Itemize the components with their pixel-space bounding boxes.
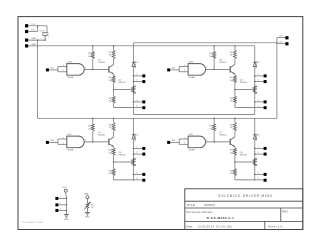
wire output column 4	[254, 118, 256, 180]
wire OUT4 pin 3	[255, 172, 264, 174]
wire Q8 gate	[235, 161, 252, 163]
resistor R7 10K	[230, 74, 237, 90]
wire IN2 to U gate	[170, 69, 179, 71]
svg-text:3: 3	[258, 100, 259, 102]
svg-text:U1D: U1D	[189, 134, 194, 136]
resistor R2 1K	[109, 45, 116, 59]
AND gate U1A	[67, 61, 86, 79]
resistor R4 1K	[109, 90, 116, 108]
svg-text:1: 1	[60, 196, 61, 198]
svg-text:2: 2	[184, 70, 185, 72]
junction bus 12V	[37, 25, 39, 32]
wire OUT2 pin 1	[255, 74, 264, 76]
wire OUT1 pin 2	[134, 80, 143, 82]
svg-text:B-CS-M080-0-1: B-CS-M080-0-1	[207, 216, 235, 220]
svg-text:7408A: 7408A	[67, 76, 74, 79]
svg-text:10K: 10K	[230, 80, 234, 82]
wire U1B output to Q3 base	[206, 69, 231, 71]
wire Q4 source return	[235, 106, 255, 108]
connector OUT1 pin 3	[142, 100, 145, 103]
svg-text:3: 3	[206, 67, 207, 69]
wire Q6 gate	[114, 161, 131, 163]
wire +12V rail jog	[133, 43, 135, 46]
wire output column 2	[254, 46, 256, 115]
svg-text:3: 3	[60, 208, 61, 210]
svg-text:VCC: VCC	[62, 187, 67, 189]
svg-text:3: 3	[258, 172, 259, 174]
transistor Q6 IRFZ34	[119, 152, 136, 166]
wire aux rail upper right	[134, 42, 277, 44]
svg-text:B-CS-M080-0-1.DSN: B-CS-M080-0-1.DSN	[23, 222, 44, 224]
svg-text:SM4004: SM4004	[256, 133, 258, 141]
resistor R12 1K	[109, 162, 116, 180]
resistor R8 1K	[230, 90, 237, 108]
wire OUT4 pin 2	[255, 152, 264, 154]
connector OUT3 pin 2	[142, 153, 145, 156]
wire J1-2	[28, 31, 37, 33]
wire J5 bus	[66, 195, 68, 214]
wire OUT3 pin 2	[134, 152, 143, 154]
diode D2 SM4004	[253, 60, 260, 68]
document number label	[186, 210, 213, 214]
connector J5 pin 1	[55, 197, 58, 200]
wire OUT2 pin 4	[255, 106, 264, 108]
svg-text:12V: 12V	[31, 24, 35, 26]
svg-text:2N4401: 2N4401	[98, 62, 106, 64]
document number value	[207, 216, 235, 220]
svg-text:0.1uF: 0.1uF	[39, 31, 45, 33]
diode D1 SM4004	[132, 60, 139, 68]
svg-text:1: 1	[63, 137, 64, 139]
wire +12V drop right	[276, 38, 278, 119]
resistor R9 10K	[88, 118, 94, 142]
svg-text:2: 2	[258, 152, 259, 154]
wire Q8 source return	[235, 179, 255, 181]
svg-text:1: 1	[136, 74, 137, 76]
wire OUT3 pin 1	[134, 146, 143, 148]
diode D3 SM4004	[132, 133, 139, 141]
svg-text:U1C: U1C	[67, 134, 72, 136]
svg-text:SOLENOID DRIVER M080: SOLENOID DRIVER M080	[218, 194, 273, 198]
svg-text:SM4004: SM4004	[135, 133, 137, 141]
ground GND2	[85, 212, 90, 218]
connector input pin IN1	[46, 68, 49, 71]
wire U1C output to Q5 base	[84, 141, 109, 143]
svg-text:4: 4	[136, 106, 137, 108]
svg-text:2: 2	[63, 70, 64, 72]
net label GND pin3	[31, 38, 36, 40]
connector OUT1 pin 2	[142, 80, 145, 83]
resistor R14 1K	[230, 118, 237, 132]
power symbol VCC	[62, 187, 67, 195]
connector OUT4 pin 1	[264, 147, 267, 150]
transistor Q7 2N4401	[219, 131, 235, 147]
connector J6 pin 1	[285, 36, 288, 39]
svg-text:SM4004: SM4004	[135, 60, 137, 68]
svg-text:7408A: 7408A	[188, 148, 195, 151]
svg-text:Sheet 1/1: Sheet 1/1	[268, 224, 283, 228]
svg-text:2: 2	[258, 80, 259, 82]
svg-text:10K: 10K	[209, 129, 213, 131]
wire +12V rail lower	[38, 117, 277, 119]
connector OUT2 pin 2	[264, 80, 267, 83]
svg-text:2: 2	[136, 80, 137, 82]
wire J6-2	[277, 42, 285, 44]
svg-text:10K: 10K	[108, 80, 112, 82]
wire GND rail mid	[134, 114, 255, 116]
svg-text:10K: 10K	[108, 153, 112, 155]
svg-text:VBB: VBB	[84, 194, 89, 196]
wire output column 3	[133, 118, 135, 180]
connector J1 pin 2	[25, 30, 28, 33]
net label 12V pin1	[31, 24, 35, 26]
svg-text:10K: 10K	[209, 56, 213, 58]
svg-text:IRFZ34: IRFZ34	[240, 155, 248, 157]
svg-text:10K: 10K	[230, 153, 234, 155]
transistor Q2 IRFZ34	[119, 79, 136, 93]
connector OUT1 pin 4	[142, 106, 145, 109]
wire IN1 to U gate	[49, 69, 58, 71]
connector J5 pin 3	[55, 209, 58, 212]
date row	[186, 224, 232, 228]
wire OUT4 pin 1	[255, 146, 264, 148]
svg-text:GND: GND	[31, 38, 36, 40]
AND gate U1B	[188, 62, 207, 79]
wire OUT2 pin 2	[255, 80, 264, 82]
net label IN2	[172, 68, 176, 70]
wire J1-4	[28, 45, 37, 47]
svg-text:IRFZ34: IRFZ34	[240, 82, 248, 84]
svg-text:3: 3	[206, 140, 207, 142]
connector J6 pin 2	[285, 42, 288, 45]
wire U1D output to Q7 base	[206, 141, 231, 143]
net label J6-1	[279, 36, 283, 38]
wire gate input split U1A	[58, 65, 67, 72]
connector OUT4 pin 2	[264, 153, 267, 156]
wire OUT1 pin 3	[134, 100, 143, 102]
svg-text:Document Number:: Document Number:	[186, 210, 213, 214]
svg-text:IRFZ34: IRFZ34	[119, 155, 127, 157]
wire OUT1 pin 4	[134, 106, 143, 108]
svg-text:TITLE:: TITLE:	[186, 203, 196, 207]
svg-text:2/25/2013 02:43:18p: 2/25/2013 02:43:18p	[198, 224, 232, 228]
svg-text:1: 1	[258, 146, 259, 148]
svg-text:2: 2	[184, 143, 185, 145]
connector input pin IN3	[46, 141, 49, 144]
wire OUT1 pin 1	[134, 74, 143, 76]
svg-text:7408A: 7408A	[67, 148, 74, 151]
wire IN4 to U gate	[170, 141, 179, 143]
transistor Q8 IRFZ34	[240, 152, 257, 166]
sheet border	[18, 17, 303, 230]
wire J5-3	[58, 208, 66, 210]
net label IN3	[50, 140, 54, 142]
wire OUT3 pin 3	[134, 172, 143, 174]
svg-text:3: 3	[136, 172, 137, 174]
svg-text:GND: GND	[64, 219, 69, 221]
junction bus GND	[37, 39, 46, 46]
transistor Q5 2N4401	[98, 131, 114, 147]
resistor R6 1K	[230, 45, 237, 59]
resistor R15 10K	[230, 147, 237, 163]
resistor R11 10K	[108, 147, 115, 163]
connector OUT3 pin 1	[142, 147, 145, 150]
connector OUT2 pin 4	[264, 106, 267, 109]
transistor Q1 2N4401	[98, 59, 114, 75]
svg-text:2N4401: 2N4401	[98, 135, 106, 137]
resistor R3 10K	[108, 74, 115, 90]
svg-text:1: 1	[136, 146, 137, 148]
title text SOLENOID DRIVER M080	[218, 194, 273, 198]
connector input pin IN4	[167, 141, 170, 144]
svg-text:10K: 10K	[88, 129, 92, 131]
net label IN1	[50, 68, 54, 70]
resistor R5 10K	[209, 45, 215, 69]
svg-text:GND: GND	[31, 44, 36, 46]
svg-text:3: 3	[85, 140, 86, 142]
wire Q4 gate	[235, 89, 252, 91]
resistor R16 1K	[230, 162, 237, 180]
svg-text:10K: 10K	[88, 56, 92, 58]
wire +12V rail top	[38, 45, 255, 47]
wire J1-1	[28, 25, 47, 27]
wire output column 1	[133, 46, 135, 115]
svg-text:SM4004: SM4004	[256, 60, 258, 68]
wire Q6 source return	[114, 179, 134, 181]
wire J5-2	[58, 203, 66, 205]
wire gate input split U1B	[179, 65, 188, 72]
title block cell dividers	[265, 208, 281, 230]
wire Q2 source return	[114, 106, 134, 108]
svg-text:2N4401: 2N4401	[219, 135, 227, 137]
resistor R13 10K	[209, 118, 215, 142]
wire OUT2 pin 3	[255, 100, 264, 102]
transistor Q4 IRFZ34	[240, 79, 257, 93]
wire IN3 to U gate	[49, 141, 58, 143]
wire U1A output to Q1 base	[84, 69, 109, 71]
svg-text:2: 2	[60, 203, 61, 205]
svg-text:1: 1	[63, 65, 64, 67]
wire OUT3 pin 4	[134, 178, 143, 180]
title block frame	[185, 189, 303, 230]
resistor RV1 trimmer	[84, 202, 95, 213]
connector input pin IN2	[167, 68, 170, 71]
wire J1-3	[28, 39, 45, 41]
svg-text:7408A: 7408A	[188, 76, 195, 79]
capacitor C1 0.1uF	[39, 26, 50, 40]
connector OUT1 pin 1	[142, 74, 145, 77]
wire Q2 gate	[114, 89, 131, 91]
svg-text:2: 2	[136, 152, 137, 154]
wire J6-1	[277, 37, 285, 39]
svg-text:REV:: REV:	[282, 210, 289, 214]
wire gate input split U1C	[58, 137, 67, 144]
svg-text:M080X: M080X	[205, 203, 216, 207]
svg-text:2: 2	[63, 143, 64, 145]
svg-text:4: 4	[136, 178, 137, 180]
connector OUT4 pin 3	[264, 173, 267, 176]
svg-text:1: 1	[184, 137, 185, 139]
svg-text:Date:: Date:	[186, 224, 193, 228]
wire +12V drop left	[37, 46, 39, 119]
wire J5-1	[58, 196, 66, 198]
svg-text:3: 3	[85, 67, 86, 69]
resistor R1 10K	[88, 45, 94, 69]
diode D4 SM4004	[253, 133, 260, 141]
svg-text:12V: 12V	[31, 30, 35, 32]
connector OUT3 pin 3	[142, 173, 145, 176]
svg-text:2N4401: 2N4401	[219, 62, 227, 64]
title block row lines	[185, 201, 303, 221]
svg-text:U1B: U1B	[189, 62, 194, 64]
title row TITLE	[186, 203, 215, 207]
svg-text:IRFZ34: IRFZ34	[119, 82, 127, 84]
connector OUT2 pin 1	[264, 74, 267, 77]
svg-text:4: 4	[258, 106, 259, 108]
ground GND1	[64, 215, 69, 221]
svg-text:3: 3	[136, 100, 137, 102]
connector J5 pin 2	[55, 203, 58, 206]
connector OUT4 pin 4	[264, 179, 267, 182]
connector J1 pin 4	[25, 44, 28, 47]
AND gate U1D	[188, 134, 207, 151]
AND gate U1C	[67, 134, 86, 151]
file note text	[23, 222, 44, 224]
svg-text:1: 1	[184, 65, 185, 67]
svg-text:U1A: U1A	[67, 61, 72, 64]
net label J6-2	[279, 42, 283, 44]
connector OUT3 pin 4	[142, 179, 145, 182]
svg-text:GND: GND	[85, 217, 90, 219]
resistor R10 1K	[109, 118, 116, 132]
transistor Q3 2N4401	[219, 59, 235, 75]
svg-text:4: 4	[258, 178, 259, 180]
sheet cell	[268, 224, 283, 228]
connector J1 pin 1	[25, 24, 28, 27]
connector J1 pin 3	[25, 39, 28, 42]
net label 12V pin2	[31, 30, 35, 32]
net label GND pin4	[31, 44, 36, 46]
svg-text:1: 1	[258, 74, 259, 76]
connector OUT2 pin 3	[264, 100, 267, 103]
wire gate input split U1D	[179, 137, 188, 144]
rev label	[282, 210, 289, 214]
net label IN4	[172, 140, 176, 142]
wire OUT4 pin 4	[255, 178, 264, 180]
power symbol VBB	[84, 194, 89, 203]
